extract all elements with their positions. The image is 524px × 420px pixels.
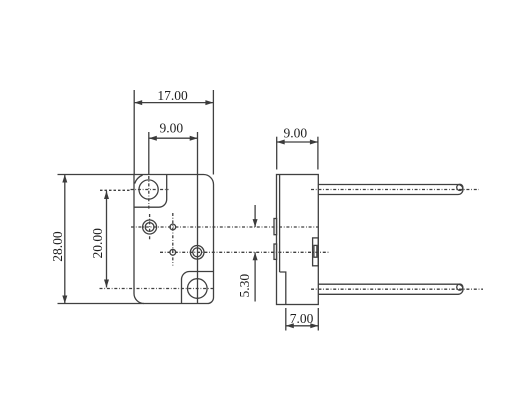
centerline h y227 across both views <box>131 226 318 228</box>
arrow 7.00 left <box>286 323 294 328</box>
centerline h bottom hole <box>100 288 214 290</box>
dim 9.00 side line <box>277 141 318 143</box>
side view bottom step <box>280 272 286 305</box>
hole D inner <box>193 248 202 257</box>
dim 28.00 line <box>64 175 66 304</box>
dim 7.00 extension right <box>317 308 319 331</box>
dim 9.00 side extension right <box>317 137 319 170</box>
boss arc around top-left hole <box>135 175 143 184</box>
side view right latch inner <box>314 245 317 257</box>
arrow 20.00 bottom <box>104 280 109 288</box>
side view left tab 1 <box>274 219 277 235</box>
dim 28.00 extension bottom <box>58 303 145 305</box>
lower pin tip circle <box>457 284 463 290</box>
upper pin <box>318 185 463 195</box>
svg-text:20.00: 20.00 <box>90 228 105 259</box>
dim 20.00 extension top dashed <box>100 189 131 191</box>
dim 5.30 lower stem <box>254 252 256 301</box>
svg-text:28.00: 28.00 <box>50 231 65 262</box>
dim 17.00 line <box>134 102 213 104</box>
side view body outline <box>277 175 319 305</box>
hole A outer <box>143 220 157 234</box>
hole top-left <box>139 180 158 199</box>
dim 7.00 line <box>286 325 319 327</box>
side view right latch outer <box>313 238 319 266</box>
dim 17.00 extension right <box>212 90 214 175</box>
centerline v top-left hole (9.00 left ext + dash) <box>148 132 150 175</box>
dim 9.00 side extension left <box>276 137 278 170</box>
dim 17.00 extension left <box>133 90 135 175</box>
dim 28.00 extension top <box>58 174 135 176</box>
arrow 7.00 right <box>310 323 318 328</box>
step edge vertical (also 9.00 right extension) <box>197 132 199 304</box>
hole D outer <box>190 246 204 260</box>
arrow 9.00 side left <box>277 140 285 145</box>
centerline h top-left hole <box>131 189 169 191</box>
centerline v hole A <box>149 214 151 241</box>
arrow 9.00 left-view left <box>149 136 157 141</box>
svg-text:9.00: 9.00 <box>283 125 307 140</box>
upper pin tip circle <box>457 184 463 190</box>
dim 9.00 left-view line <box>149 137 198 139</box>
centerline v holes B C <box>172 213 174 266</box>
lower pin <box>318 284 463 294</box>
arrow 9.00 side right <box>310 140 318 145</box>
top-left pocket wall vertical <box>134 175 167 208</box>
bottom pocket wall <box>182 272 214 304</box>
arrow 5.30 lower (points up) <box>253 252 258 260</box>
dim 7.00 extension left <box>285 308 287 331</box>
svg-text:17.00: 17.00 <box>157 88 188 103</box>
bottom hole <box>188 279 208 299</box>
lower pin centerline <box>311 288 483 290</box>
hole A inner <box>145 223 154 232</box>
arrow 17.00 right <box>205 100 213 105</box>
arrow 9.00 left-view right <box>190 136 198 141</box>
side view left tab 2 <box>274 244 277 259</box>
upper pin centerline <box>311 189 479 191</box>
arrow 5.30 upper (points down) <box>253 219 258 227</box>
side view plate strip inner line <box>279 175 281 273</box>
hole B small <box>170 224 176 230</box>
arrow 28.00 top <box>62 175 67 183</box>
arrow 20.00 top <box>104 191 109 199</box>
svg-text:9.00: 9.00 <box>159 120 183 135</box>
centerline h y252 across both views <box>160 251 330 253</box>
hole C small <box>170 249 176 255</box>
plate outline (front view) <box>134 175 214 304</box>
dim 5.30 upper stem <box>254 205 256 227</box>
svg-text:5.30: 5.30 <box>237 274 252 298</box>
arrow 28.00 bottom <box>62 296 67 304</box>
svg-text:7.00: 7.00 <box>290 311 314 326</box>
dim 20.00 line <box>106 191 108 288</box>
arrow 17.00 left <box>134 100 142 105</box>
